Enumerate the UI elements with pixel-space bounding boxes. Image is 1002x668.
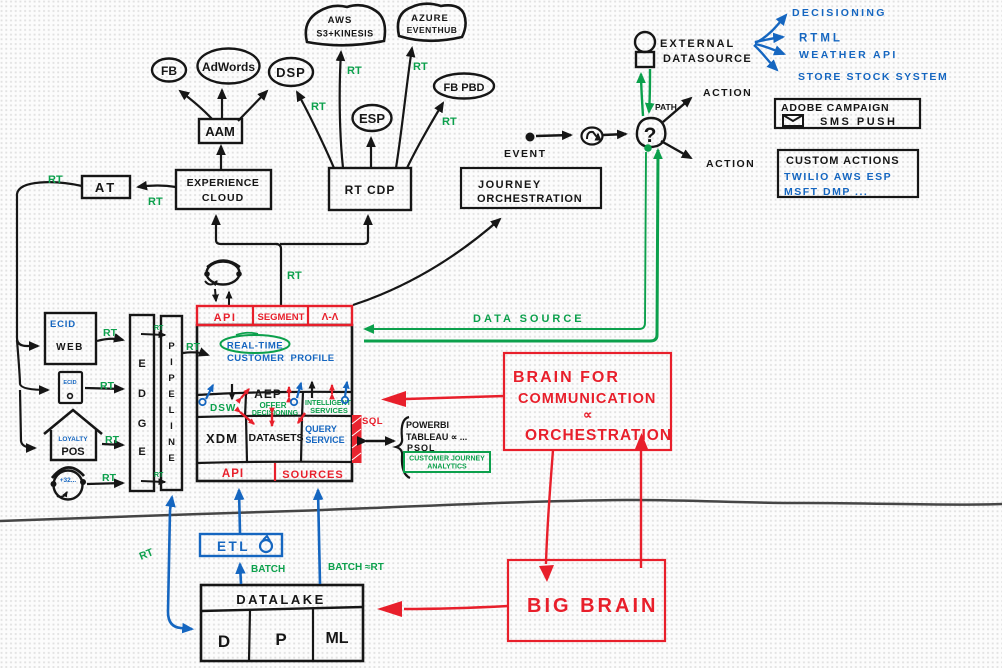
label XDM	[206, 431, 238, 446]
svg-text:SQL: SQL	[362, 416, 383, 427]
label DATASETS	[248, 432, 303, 444]
box ADOBE CAMPAIGN	[775, 99, 920, 128]
svg-text:L: L	[169, 405, 175, 416]
arrow decision to action top	[663, 87, 752, 122]
svg-text:JOURNEY: JOURNEY	[478, 179, 542, 191]
box CUSTOM ACTIONS	[778, 150, 918, 198]
svg-text:DSP: DSP	[276, 65, 306, 80]
svg-text:RT: RT	[287, 270, 302, 282]
svg-text:FB: FB	[161, 64, 177, 78]
svg-text:ESP: ESP	[359, 111, 385, 126]
icon voice assistant	[204, 261, 242, 285]
svg-text:E: E	[138, 446, 145, 458]
svg-text:?: ?	[644, 124, 657, 147]
svg-text:ECID: ECID	[50, 319, 76, 330]
svg-text:BIG BRAIN: BIG BRAIN	[527, 595, 658, 617]
label OFFER DECISIONING	[252, 401, 299, 417]
svg-text:P: P	[168, 341, 175, 352]
label CUSTOMER PROFILE	[227, 353, 334, 364]
arrow AAM to DSP	[238, 91, 267, 121]
node event dot	[526, 133, 535, 142]
svg-text:TWILIO AWS ESP: TWILIO AWS ESP	[784, 171, 892, 183]
red arrow big brain to brain	[635, 433, 648, 568]
svg-text:POS: POS	[61, 446, 84, 458]
icon timer	[582, 128, 603, 145]
arrow edge to pipeline bottom	[141, 472, 165, 482]
arrow RT CDP to FB PBD	[407, 103, 457, 168]
red diagonal arrow datasets query	[298, 413, 305, 423]
svg-text:AZURE: AZURE	[411, 13, 449, 24]
box AT	[82, 176, 130, 198]
svg-text:LOYALTY: LOYALTY	[58, 436, 88, 443]
red arrow big brain to datalake	[377, 601, 508, 617]
svg-text:E: E	[168, 389, 174, 400]
svg-text:P: P	[275, 630, 286, 649]
svg-text:MSFT DMP ...: MSFT DMP ...	[784, 186, 868, 198]
green wire decision to external datasource	[641, 69, 650, 116]
svg-text:DATASETS: DATASETS	[248, 432, 303, 444]
arrow edge to pipeline top	[141, 325, 165, 335]
svg-text:EXPERIENCE: EXPERIENCE	[187, 177, 260, 189]
svg-text:SERVICES: SERVICES	[310, 406, 348, 415]
svg-text:SOURCES: SOURCES	[282, 469, 343, 481]
svg-text:P: P	[168, 373, 175, 384]
oval AdWords	[198, 49, 260, 84]
svg-text:API: API	[214, 312, 237, 324]
red arrow brain to AEP	[381, 391, 504, 407]
brace BI tools	[396, 417, 410, 478]
box ECID WEB	[45, 313, 96, 364]
SQL hatch bar	[352, 415, 383, 463]
svg-text:ORCHESTRATION: ORCHESTRATION	[525, 427, 672, 444]
label AEP	[254, 387, 282, 401]
svg-text:∝: ∝	[583, 407, 592, 422]
label EXTERNAL DATASOURCE	[660, 38, 752, 65]
svg-text:N: N	[168, 437, 175, 448]
arrow RT CDP to ESP	[370, 138, 372, 168]
wire AT to channel sources	[17, 174, 82, 448]
box AEP platform	[197, 325, 352, 481]
cloud Azure EventHub	[398, 4, 466, 41]
svg-text:E: E	[138, 358, 145, 370]
wire AEP to Experience Cloud and RT CDP	[216, 216, 368, 306]
svg-text:RT: RT	[347, 65, 362, 77]
icon phone ECID	[59, 372, 82, 403]
svg-text:RT CDP: RT CDP	[345, 183, 396, 197]
svg-text:CUSTOM ACTIONS: CUSTOM ACTIONS	[786, 155, 900, 167]
svg-text:ETL: ETL	[217, 539, 250, 554]
svg-text:CUSTOMER JOURNEY: CUSTOMER JOURNEY	[409, 456, 485, 463]
svg-text:API: API	[222, 468, 244, 480]
node decision	[637, 118, 665, 147]
arrow Experience Cloud to AAM	[220, 146, 222, 170]
cloud AWS S3+Kinesis	[306, 5, 385, 45]
arrow voice assistant to AEP api	[215, 289, 216, 301]
svg-text:DATASOURCE: DATASOURCE	[663, 53, 752, 65]
label INTELLIGENT SERVICES	[305, 400, 352, 415]
arrow pos to edge	[102, 434, 123, 446]
box PIPELINE	[161, 316, 182, 490]
blue circle and arrow intelligent cell	[342, 382, 348, 403]
svg-text:AdWords: AdWords	[202, 60, 255, 74]
blue arrow to RTML	[755, 33, 843, 45]
svg-text:DATA SOURCE: DATA SOURCE	[473, 313, 585, 325]
svg-text:WEATHER API: WEATHER API	[799, 49, 898, 61]
svg-text:+32...: +32...	[60, 477, 77, 484]
box EXPERIENCE CLOUD	[176, 170, 271, 209]
svg-text:EVENTHUB: EVENTHUB	[407, 25, 458, 35]
red vertical arrow datasets	[271, 413, 273, 426]
red vertical arrows beside AEP	[288, 387, 290, 397]
svg-text:AWS: AWS	[328, 15, 353, 26]
svg-text:SMS PUSH: SMS PUSH	[820, 116, 897, 128]
svg-text:TABLEAU ∝ ...: TABLEAU ∝ ...	[406, 432, 467, 442]
svg-text:AAM: AAM	[205, 124, 235, 139]
svg-text:RT: RT	[186, 341, 201, 353]
arrow RT CDP to Azure EventHub	[396, 48, 428, 168]
AEP bottom band API SOURCES	[222, 463, 344, 481]
svg-text:RTML: RTML	[799, 33, 843, 45]
box AAM	[199, 119, 242, 143]
green squiggle above REAL-TIME	[236, 333, 258, 335]
svg-text:DECISIONING: DECISIONING	[792, 7, 887, 19]
svg-text:BATCH ≈RT: BATCH ≈RT	[328, 562, 384, 573]
arrow AAM to AdWords	[221, 90, 223, 119]
svg-text:ACTION: ACTION	[706, 158, 755, 170]
label QUERY SERVICE	[305, 424, 345, 445]
svg-text:G: G	[138, 418, 147, 430]
svg-text:I: I	[170, 357, 173, 368]
svg-text:RT: RT	[154, 472, 164, 479]
svg-text:CLOUD: CLOUD	[202, 192, 244, 204]
svg-text:ECID: ECID	[63, 380, 76, 386]
svg-text:ANALYTICS: ANALYTICS	[427, 464, 467, 471]
green node below decision	[644, 144, 652, 152]
divider wavy line	[0, 500, 1002, 521]
box BRAIN FOR COMMUNICATION ORCHESTRATION	[504, 353, 672, 450]
svg-text:ORCHESTRATION: ORCHESTRATION	[477, 193, 583, 205]
arrow headset to edge	[87, 472, 123, 484]
svg-text:DECISIONING: DECISIONING	[252, 410, 299, 417]
arrow RT CDP to DSP	[297, 92, 334, 168]
svg-text:D: D	[218, 632, 230, 651]
icon external datasource person	[635, 32, 655, 67]
svg-text:S3+KINESIS: S3+KINESIS	[316, 29, 373, 39]
svg-text:AEP: AEP	[254, 387, 282, 401]
oval FB	[152, 59, 186, 82]
icon house LOYALTY POS	[44, 410, 102, 460]
blue arrow datalake to ETL	[240, 564, 285, 584]
svg-text:RT: RT	[105, 434, 120, 446]
svg-text:DATALAKE: DATALAKE	[236, 592, 326, 607]
box JOURNEY ORCHESTRATION	[461, 168, 601, 208]
svg-text:WEB: WEB	[56, 342, 84, 353]
label EVENT	[504, 148, 547, 160]
red vertical arrows intelligent cell	[331, 385, 333, 394]
svg-text:ADOBE CAMPAIGN: ADOBE CAMPAIGN	[781, 102, 889, 114]
blue arrow datalake to AEP sources	[318, 490, 384, 584]
AEP inner dividers	[197, 392, 352, 463]
arrow decision to action bottom	[661, 141, 755, 170]
svg-text:E: E	[168, 453, 174, 464]
svg-text:RT: RT	[100, 380, 115, 392]
svg-text:EXTERNAL: EXTERNAL	[660, 38, 735, 50]
svg-text:OFFER: OFFER	[259, 401, 286, 410]
arrow web to edge	[97, 327, 123, 341]
svg-text:RT: RT	[102, 472, 117, 484]
svg-text:RT: RT	[413, 61, 428, 73]
arrow timer to decision node	[603, 134, 626, 135]
icon headset caller	[51, 467, 87, 499]
svg-text:RT: RT	[148, 196, 163, 208]
oval REAL-TIME	[221, 335, 290, 353]
svg-text:SERVICE: SERVICE	[305, 435, 344, 445]
arrow AAM to FB	[180, 91, 212, 119]
red arrow brain to big brain	[539, 450, 554, 582]
svg-text:ACTION: ACTION	[703, 87, 752, 99]
blue arrow to DECISIONING	[755, 7, 887, 43]
box RT CDP	[329, 168, 411, 210]
label DSW	[199, 385, 236, 414]
arrow AEP api to voice assistant	[228, 292, 230, 306]
blue wire pipeline to datalake	[138, 497, 192, 629]
red diagonal arrow xdm datasets	[240, 412, 254, 424]
svg-text:D: D	[138, 388, 146, 400]
AEP header API SEGMENT lambda	[197, 306, 352, 325]
svg-text:POWERBI: POWERBI	[406, 420, 449, 430]
svg-text:REAL-TIME: REAL-TIME	[227, 341, 283, 352]
svg-text:SEGMENT: SEGMENT	[258, 312, 305, 323]
svg-text:STORE STOCK SYSTEM: STORE STOCK SYSTEM	[798, 71, 948, 83]
arrow phone to edge	[85, 380, 123, 392]
blue arrow to WEATHER API	[755, 44, 898, 61]
svg-text:RT: RT	[48, 174, 63, 186]
svg-text:RT: RT	[442, 116, 457, 128]
arrow Experience Cloud to AT	[138, 186, 176, 209]
svg-text:RT: RT	[154, 325, 164, 332]
arrow AEP to Journey Orchestration	[353, 219, 500, 305]
svg-text:DSW: DSW	[210, 403, 236, 414]
red arrows at offer cell left	[241, 389, 249, 398]
box BIG BRAIN	[508, 560, 665, 641]
svg-text:COMMUNICATION: COMMUNICATION	[518, 391, 656, 407]
svg-text:FB PBD: FB PBD	[444, 82, 485, 94]
blue circle and arrow offer cell	[291, 383, 301, 405]
box ETL	[200, 534, 282, 556]
oval FB PBD	[434, 74, 494, 99]
svg-text:AT: AT	[95, 180, 117, 195]
label PATH	[655, 102, 677, 112]
box CUSTOMER JOURNEY ANALYTICS	[404, 452, 490, 472]
double arrow SQL to BI tools	[366, 440, 394, 442]
box EDGE	[130, 315, 154, 491]
svg-text:RT: RT	[103, 327, 118, 339]
svg-text:ML: ML	[325, 630, 348, 647]
svg-text:PATH: PATH	[655, 102, 677, 112]
svg-text:XDM: XDM	[206, 431, 238, 446]
svg-text:Λ-Λ: Λ-Λ	[322, 312, 339, 323]
arrow RT CDP to AWS cloud	[340, 52, 362, 168]
black arrow into DSW cell	[231, 384, 233, 399]
black up arrow intelligent cell	[311, 382, 313, 398]
svg-text:CUSTOMER PROFILE: CUSTOMER PROFILE	[227, 353, 334, 364]
blue arrow ETL to AEP api	[239, 490, 240, 533]
svg-text:I: I	[170, 421, 173, 432]
label POWERBI TABLEAU PSQL	[406, 420, 467, 453]
arrow pipeline to AEP	[183, 341, 208, 355]
oval ESP	[353, 105, 392, 131]
svg-text:QUERY: QUERY	[305, 424, 337, 434]
svg-text:RT: RT	[311, 101, 326, 113]
svg-text:BATCH: BATCH	[251, 564, 285, 575]
svg-text:BRAIN FOR: BRAIN FOR	[513, 369, 620, 386]
arrow event to timer	[536, 135, 571, 136]
oval DSP	[269, 58, 313, 86]
box DATALAKE	[201, 585, 363, 661]
svg-text:EVENT: EVENT	[504, 148, 547, 160]
green wire decision to AEP data source	[364, 150, 658, 341]
blue arrow to STORE STOCK SYSTEM	[754, 45, 948, 83]
